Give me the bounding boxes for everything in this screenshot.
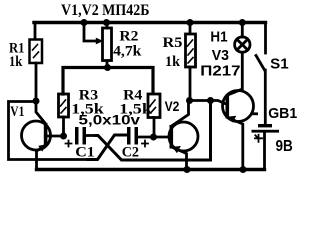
transistor V1 [22, 101, 64, 170]
label R5 value [163, 35, 183, 70]
wire V2 collector to V3 base [190, 101, 227, 105]
wire cross coupling C2 left to left route [88, 135, 127, 160]
resistor R3 [59, 68, 69, 137]
svg-text:9В: 9В [276, 138, 293, 155]
node R2 bottom junction [104, 64, 111, 71]
wire bias line R2 bottom to R3/R4 [63, 68, 153, 95]
node coupling junction [207, 97, 214, 104]
capacitor C2 [127, 127, 154, 147]
lamp H1 [235, 23, 250, 53]
transistor V2 [154, 101, 199, 170]
node V2 base junction [150, 134, 157, 141]
svg-text:П217: П217 [200, 62, 240, 79]
node R2 top rail dot [103, 19, 110, 26]
node R2 wiper rail dot [81, 19, 88, 26]
node R5 rail dot [187, 19, 194, 26]
switch S1 [256, 23, 266, 125]
svg-text:1k: 1k [9, 54, 23, 70]
svg-text:S1: S1 [270, 55, 289, 72]
label V2 [165, 98, 180, 114]
resistor R5 [186, 23, 196, 101]
svg-text:C2: C2 [122, 145, 139, 161]
label R1 value [9, 41, 25, 71]
svg-text:V1: V1 [10, 104, 24, 120]
svg-text:R5: R5 [163, 35, 183, 51]
svg-text:1k: 1k [165, 54, 181, 70]
wire bottom rail [37, 168, 265, 171]
label S1 [270, 55, 289, 72]
label V1 [10, 104, 24, 120]
label H1 [210, 28, 227, 45]
label C2 [122, 145, 139, 161]
svg-text:R2: R2 [119, 29, 138, 45]
resistor R4 [148, 94, 160, 137]
svg-text:4,7k: 4,7k [113, 44, 142, 60]
node V2 collector junction [186, 97, 193, 104]
label C1 [75, 145, 95, 161]
svg-text:Н1: Н1 [210, 28, 227, 45]
capacitor C1 [66, 127, 97, 147]
wire cross coupling C1 right to V2 collector [96, 101, 211, 161]
potentiometer R2 [84, 23, 112, 68]
node V2 emitter rail dot [184, 166, 191, 173]
resistor R1 [30, 23, 43, 102]
svg-text:V2: V2 [165, 98, 180, 114]
label R4 value [119, 88, 152, 118]
svg-text:V1,V2 МП42Б: V1,V2 МП42Б [61, 2, 150, 19]
svg-text:1,5k: 1,5k [119, 102, 152, 118]
node V3 emitter rail dot [240, 166, 247, 173]
label C1 C2 value [79, 112, 141, 128]
node R1/V1 collector junction [33, 98, 40, 105]
wire top rail [34, 21, 266, 24]
svg-text:V3: V3 [212, 47, 229, 64]
label V1,V2 type [61, 2, 150, 19]
wire left feedback route (V1 collector to C2 via left edge) [9, 102, 89, 160]
transistor V3 [223, 52, 254, 169]
node H1 rail dot [239, 19, 246, 26]
label R3 value [71, 88, 104, 118]
svg-text:GB1: GB1 [268, 105, 297, 122]
node V1 base junction [60, 133, 67, 140]
battery GB1 [252, 112, 280, 169]
label V3 type [200, 47, 240, 80]
label GB1 [268, 105, 297, 155]
label R2 value [113, 29, 142, 60]
